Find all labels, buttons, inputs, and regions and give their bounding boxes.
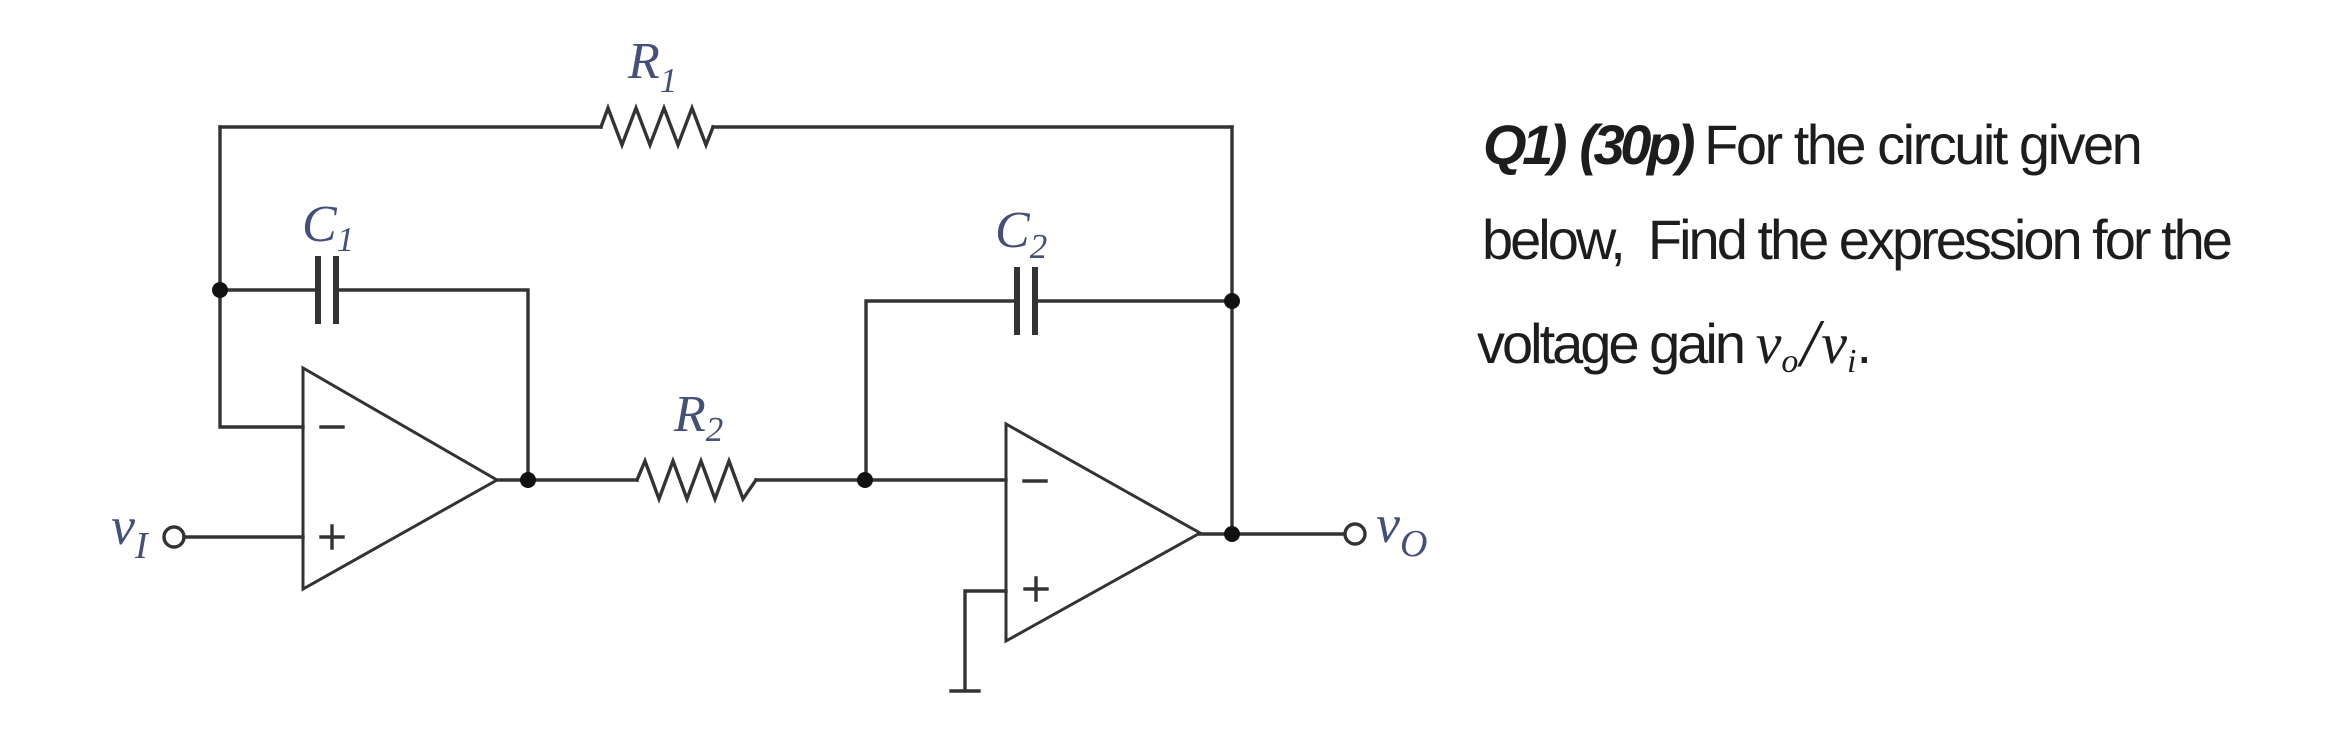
svg-text:C1: C1 xyxy=(302,196,354,259)
svg-text:vO: vO xyxy=(1376,494,1427,565)
svg-text:C2: C2 xyxy=(995,202,1047,266)
svg-text:R2: R2 xyxy=(673,386,723,449)
svg-text:R1: R1 xyxy=(627,33,677,100)
svg-text:vI: vI xyxy=(111,496,150,567)
